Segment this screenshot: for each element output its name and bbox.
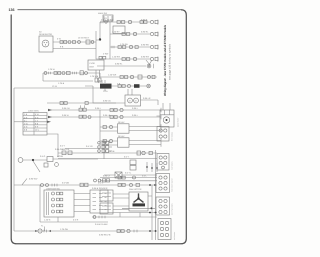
row2 tail lamp xyxy=(150,32,158,37)
horn diagonal branch xyxy=(33,161,40,172)
svg-text:1.25-G: 1.25-G xyxy=(44,219,51,222)
row1 headlamp xyxy=(150,20,158,25)
svg-text:1.25-WB: 1.25-WB xyxy=(90,75,99,78)
coil top marks xyxy=(98,80,105,91)
blower wires xyxy=(113,194,155,210)
svg-text:RELAY: RELAY xyxy=(118,121,125,124)
tail bus xyxy=(14,230,157,232)
svg-text:136: 136 xyxy=(9,8,15,12)
sender column bus xyxy=(103,140,105,159)
svg-text:M: M xyxy=(129,99,131,102)
brake wire xyxy=(14,184,157,186)
accessory components right xyxy=(120,75,142,79)
ignition coil xyxy=(100,84,112,89)
horn out wire xyxy=(53,158,98,160)
svg-text:0.5-Y: 0.5-Y xyxy=(124,155,130,158)
svg-text:5 W: 5 W xyxy=(35,113,39,116)
svg-text:12-W: 12-W xyxy=(52,85,57,88)
row3 left marks xyxy=(112,46,114,48)
fan feed rows xyxy=(100,178,157,181)
brake marks xyxy=(52,184,57,187)
svg-text:1.25-WR: 1.25-WR xyxy=(108,74,117,77)
svg-text:2-RW: 2-RW xyxy=(103,52,108,55)
tail connector pair xyxy=(117,230,124,233)
svg-text:0.85-LB: 0.85-LB xyxy=(103,114,111,117)
svg-text:BOX: BOX xyxy=(90,66,95,69)
row1 connector pair b xyxy=(140,21,147,24)
lower wire a dots xyxy=(149,212,156,214)
blower motor box xyxy=(129,192,148,211)
svg-text:rear lamps: rear lamps xyxy=(171,161,174,170)
svg-text:0.85-L: 0.85-L xyxy=(132,107,139,110)
accessory start marks xyxy=(49,72,77,74)
lighting row 4 wire xyxy=(110,58,150,60)
junction arrow out xyxy=(47,121,51,123)
accessory connector xyxy=(67,71,71,74)
diagram border frame xyxy=(11,10,186,244)
relay 1 input connector xyxy=(103,125,113,128)
washer mid cluster xyxy=(79,105,86,111)
left harness wire xyxy=(13,88,15,231)
turn connector block xyxy=(90,190,108,213)
lighting bus vertical xyxy=(109,22,111,59)
charge fuse pair xyxy=(60,41,67,44)
lower wire a xyxy=(108,212,157,214)
svg-text:2-G 1.25-RW: 2-G 1.25-RW xyxy=(101,19,113,22)
wiper panel stubs xyxy=(157,103,171,116)
accessory lower wire xyxy=(43,73,93,81)
fan row components xyxy=(118,176,136,179)
alternator xyxy=(39,36,53,52)
panel 3 (instruments) xyxy=(156,174,170,193)
fuse box xyxy=(88,60,104,70)
svg-text:0.5-YL: 0.5-YL xyxy=(125,172,132,175)
brake branch mark xyxy=(22,179,27,185)
sender 1 xyxy=(98,141,112,144)
panel 4 (warning) xyxy=(156,197,170,215)
svg-text:0.85-GW: 0.85-GW xyxy=(29,177,37,180)
wiper motor panel xyxy=(160,110,174,127)
blower junction dot xyxy=(151,207,153,209)
wiper feed connectors xyxy=(60,102,88,105)
turn bus left vertical xyxy=(39,185,41,222)
svg-text:9 R: 9 R xyxy=(35,126,39,129)
lighting row 3 wire xyxy=(110,46,150,48)
sender 2 xyxy=(98,146,112,149)
condenser xyxy=(134,84,140,88)
row2 switch xyxy=(133,32,136,35)
svg-text:FL: FL xyxy=(41,224,44,227)
relay 2 wires xyxy=(100,141,161,146)
accessory lamp xyxy=(147,75,155,78)
spark lamp xyxy=(147,84,151,88)
svg-text:15-W RECT: 15-W RECT xyxy=(78,37,90,40)
svg-text:HORN: HORN xyxy=(57,155,64,158)
charge connector xyxy=(68,41,71,44)
row4 junction diagonals xyxy=(146,60,152,67)
horn switch cluster xyxy=(44,157,58,168)
row4 connector pair xyxy=(122,58,130,61)
svg-text:Wiring diagram - later ET250 m: Wiring diagram - later ET250 models and … xyxy=(163,25,167,96)
row4 switch xyxy=(133,57,136,60)
row2 connector pair xyxy=(122,33,130,36)
svg-text:5-W: 5-W xyxy=(57,37,61,40)
row1 switch xyxy=(128,20,131,23)
accessory row start xyxy=(44,72,47,75)
washer connectors xyxy=(110,109,117,112)
svg-text:JUNCTION: JUNCTION xyxy=(28,109,39,112)
right bus a xyxy=(151,185,153,240)
panel 5 (rear cluster) xyxy=(158,219,171,240)
svg-text:wiper motor: wiper motor xyxy=(177,117,180,127)
svg-text:4 W: 4 W xyxy=(24,123,28,126)
wire main feed xyxy=(96,31,110,59)
svg-text:see page 135 for key to symbol: see page 135 for key to symbols xyxy=(168,43,171,80)
washer switch xyxy=(120,108,123,111)
fusebox pin cluster xyxy=(95,70,101,82)
accessory row wire xyxy=(43,73,157,77)
heater connectors xyxy=(110,116,117,119)
lighting row 2 wire xyxy=(110,33,150,35)
interior lamp wire xyxy=(97,65,146,67)
row3 switch xyxy=(129,45,132,48)
horn xyxy=(18,158,23,163)
ignition switch cluster xyxy=(98,12,125,41)
washer end bar xyxy=(160,108,162,112)
svg-text:0.5-Y: 0.5-Y xyxy=(60,144,66,147)
svg-text:FAN MOTOR: FAN MOTOR xyxy=(129,188,142,191)
svg-text:0.85-B SENDER: 0.85-B SENDER xyxy=(92,187,108,190)
coil wire xyxy=(112,85,147,87)
svg-text:0.85-L: 0.85-L xyxy=(132,114,139,117)
svg-text:0.5-WB: 0.5-WB xyxy=(62,182,70,185)
junction feed in xyxy=(14,121,23,123)
svg-text:0.85-RL: 0.85-RL xyxy=(141,31,149,34)
wiper feed wire xyxy=(47,102,125,104)
charge wire xyxy=(53,41,96,43)
tail marks xyxy=(134,230,137,233)
turn switch bank xyxy=(44,190,74,217)
svg-text:FUSE: FUSE xyxy=(90,62,96,65)
washer arrowhead xyxy=(48,109,52,111)
svg-text:0.5-YB: 0.5-YB xyxy=(108,150,115,153)
heater connector stack xyxy=(100,190,113,214)
tail switch xyxy=(127,229,130,232)
distributor xyxy=(127,84,130,87)
svg-text:0.85-LW: 0.85-LW xyxy=(62,107,70,110)
panel 1 (lamps) xyxy=(157,127,169,142)
svg-text:0.5-YR: 0.5-YR xyxy=(86,145,93,148)
row3 lamp xyxy=(150,45,158,50)
row3 connector pair xyxy=(118,46,126,49)
gauge mid cluster xyxy=(62,148,72,154)
heater switch xyxy=(120,115,123,118)
row1 connector pair xyxy=(117,21,125,24)
row3 connector b xyxy=(135,46,138,49)
lighting row 1 wire xyxy=(100,21,150,23)
svg-text:0.85-LW: 0.85-LW xyxy=(103,100,111,103)
coil connector pair xyxy=(118,85,125,88)
lower wire b xyxy=(92,216,157,218)
brake switch b xyxy=(46,184,49,187)
svg-text:front lamps: front lamps xyxy=(171,132,174,141)
svg-text:2 R: 2 R xyxy=(24,116,28,119)
junction out lower xyxy=(47,134,58,157)
relay feed vertical xyxy=(99,110,101,145)
relay 2 input connector xyxy=(103,139,113,142)
horn wire xyxy=(23,159,47,161)
oil switch xyxy=(115,172,122,178)
washer wire xyxy=(48,109,161,111)
row4 lamp xyxy=(150,57,158,62)
flasher unit xyxy=(35,227,51,234)
svg-text:1.25-RG: 1.25-RG xyxy=(112,56,120,59)
svg-text:0.5-G: 0.5-G xyxy=(98,182,104,185)
gauge left wire xyxy=(65,148,104,150)
svg-text:instrument panel: instrument panel xyxy=(171,178,174,192)
gauge wire a xyxy=(58,152,157,154)
ammeter cluster xyxy=(73,40,94,44)
accessory fuse pair xyxy=(54,72,61,75)
svg-text:0.85-RB: 0.85-RB xyxy=(141,44,149,47)
accessory cluster xyxy=(80,71,88,75)
right bus b xyxy=(155,150,157,240)
svg-text:COIL: COIL xyxy=(103,90,109,93)
lower wire b switch xyxy=(93,216,96,219)
svg-text:0.85-W: 0.85-W xyxy=(62,114,69,117)
svg-text:2-B: 2-B xyxy=(117,83,121,86)
brake junction dots xyxy=(149,184,156,186)
relay 1 xyxy=(118,124,130,133)
horn junction xyxy=(32,159,34,161)
brake right components xyxy=(118,183,140,186)
svg-text:1.25-B: 1.25-B xyxy=(58,82,65,85)
heater arrowhead xyxy=(48,116,52,118)
fuel cluster xyxy=(130,160,136,170)
panel 2 (rear lamps) xyxy=(157,154,169,171)
svg-text:RELAY: RELAY xyxy=(118,135,125,138)
wiper out wire xyxy=(141,100,159,105)
svg-text:1.25-GB: 1.25-GB xyxy=(60,228,68,231)
svg-text:0.5-G: 0.5-G xyxy=(40,155,46,158)
fuel sender cluster xyxy=(94,179,110,182)
turn bank drop xyxy=(57,217,59,222)
sender 3 xyxy=(98,150,112,153)
svg-text:GENERATOR: GENERATOR xyxy=(39,33,52,36)
wiper motor box risers xyxy=(128,89,132,95)
svg-text:1.25-RY: 1.25-RY xyxy=(112,31,120,34)
relay 1 end bars xyxy=(160,124,162,132)
relay 1 wires xyxy=(100,127,161,132)
brake switch a xyxy=(41,184,44,187)
tail junction dots xyxy=(149,230,156,232)
header rule xyxy=(18,9,182,11)
gauge wire b xyxy=(58,158,157,160)
svg-text:5 G: 5 G xyxy=(24,126,28,129)
interior lamp xyxy=(147,64,153,68)
svg-text:0.85-R: 0.85-R xyxy=(141,19,148,22)
svg-text:0.5-B 0.5-BW: 0.5-B 0.5-BW xyxy=(95,223,108,226)
heater wire xyxy=(48,116,161,118)
svg-text:tail cluster: tail cluster xyxy=(173,232,176,240)
row4 left cluster xyxy=(99,52,108,59)
svg-text:0.85-RL: 0.85-RL xyxy=(115,63,123,66)
relay 2 xyxy=(118,138,130,147)
svg-text:0.85-LY: 0.85-LY xyxy=(103,174,111,177)
svg-text:0.85-RG: 0.85-RG xyxy=(141,56,149,59)
svg-text:0.85-LR: 0.85-LR xyxy=(143,97,151,100)
svg-text:5 E-R: 5 E-R xyxy=(73,219,79,222)
svg-text:1.25-W: 1.25-W xyxy=(48,68,55,71)
gauge cluster a xyxy=(137,151,152,155)
turn bus xyxy=(40,221,108,223)
alternator lower wire xyxy=(53,48,96,50)
heater mid cluster xyxy=(79,115,91,118)
svg-text:0.5-L: 0.5-L xyxy=(142,174,148,177)
brake cluster xyxy=(80,183,88,186)
svg-text:8-B: 8-B xyxy=(60,45,64,48)
svg-text:M: M xyxy=(135,99,137,102)
svg-text:warning lamps: warning lamps xyxy=(171,203,174,215)
svg-text:0.85-RB 2-B: 0.85-RB 2-B xyxy=(99,233,111,236)
accessory switch xyxy=(62,72,65,75)
relay 2 end bars xyxy=(160,138,162,146)
wiper motor box xyxy=(125,95,141,106)
main feed wire xyxy=(14,87,100,89)
oil wire xyxy=(104,174,157,176)
fuel junction dots xyxy=(146,162,158,172)
svg-text:0.85-L: 0.85-L xyxy=(95,107,102,110)
junction block xyxy=(23,113,47,136)
svg-text:METER: METER xyxy=(62,148,70,151)
turn bank wires out xyxy=(74,194,90,212)
coil return wires xyxy=(85,86,116,103)
svg-text:MAIN SW: MAIN SW xyxy=(98,12,107,15)
svg-text:6 G: 6 G xyxy=(35,116,39,119)
lower wire b marks xyxy=(99,213,140,219)
heater end bar xyxy=(160,115,162,119)
